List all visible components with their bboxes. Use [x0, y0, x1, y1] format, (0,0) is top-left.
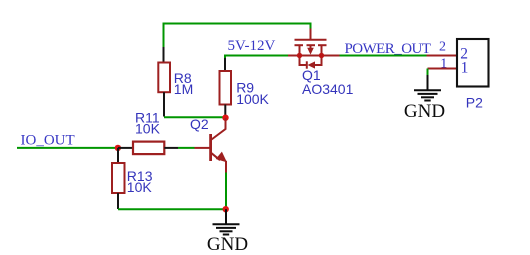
Q1 source junction dot: [297, 53, 302, 58]
wire top bus from R8 top to Q1 gate: [164, 24, 311, 49]
svg-text:10K: 10K: [135, 121, 161, 137]
wire R8 bottom to node A: [164, 116, 226, 118]
wire Q2 emitter to ground node: [225, 173, 227, 210]
label R11 10K: [135, 109, 161, 136]
svg-text:GND: GND: [207, 234, 248, 255]
transistor Q1 (AO3401 P-MOSFET): [288, 29, 340, 69]
Q1 gate arrow: [307, 48, 314, 55]
wire Q1 drain to P2 pin 2: [340, 55, 428, 57]
label Q1 AO3401: [302, 67, 354, 97]
resistor R8: [158, 47, 170, 117]
svg-text:P2: P2: [466, 94, 483, 110]
resistor R11: [118, 142, 178, 155]
node B junction dot (IO_OUT/R11/R13): [115, 145, 121, 151]
wire bottom R13 to ground node: [118, 208, 226, 210]
label R13 10K: [127, 168, 153, 195]
node C junction dot (emitter/R13/GND): [223, 206, 229, 212]
svg-text:10K: 10K: [127, 179, 153, 195]
svg-text:1M: 1M: [174, 81, 193, 97]
svg-text:1: 1: [440, 56, 447, 71]
wire IO_OUT input: [17, 147, 118, 149]
svg-text:POWER_OUT: POWER_OUT: [345, 41, 431, 57]
svg-text:5V-12V: 5V-12V: [228, 38, 276, 54]
svg-text:Q2: Q2: [190, 116, 209, 132]
wire P2 pin1 to ground: [427, 69, 429, 77]
Q1 drain junction dot: [319, 53, 324, 58]
wire R11 to Q2 base: [178, 147, 195, 149]
wire 5V-12V to Q1 source: [225, 56, 289, 60]
P2 pin 1 lead: [428, 68, 458, 70]
label R9 100K: [236, 80, 269, 107]
resistor R13: [112, 148, 125, 209]
svg-text:1: 1: [461, 60, 469, 77]
connector P2 body: [457, 39, 489, 87]
transistor Q2 (NPN): [195, 118, 227, 174]
svg-text:AO3401: AO3401: [302, 81, 354, 97]
label R8 1M: [174, 70, 193, 97]
Q2 emitter arrowhead: [216, 152, 226, 161]
svg-text:100K: 100K: [236, 91, 269, 107]
resistor R9: [220, 58, 232, 118]
node A junction dot (R8/R9/Q2 collector): [222, 115, 228, 121]
svg-text:2: 2: [439, 40, 446, 55]
svg-text:GND: GND: [404, 101, 445, 122]
ground GND bottom: [213, 209, 240, 234]
svg-text:IO_OUT: IO_OUT: [21, 132, 75, 148]
P2 pin 2 lead: [427, 55, 458, 57]
ground GND right: [414, 75, 441, 101]
Q1 body diode: [308, 61, 316, 68]
